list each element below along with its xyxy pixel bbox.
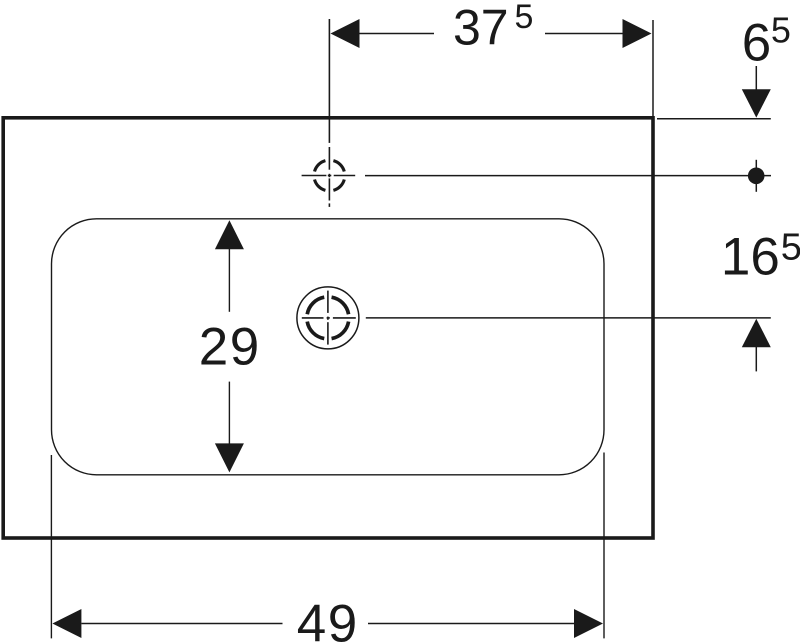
svg-text:5: 5 bbox=[781, 226, 800, 268]
faucet hole circle arcs bbox=[315, 161, 345, 191]
reference line from faucet hole to datum dot (y=175.5) bbox=[365, 175, 771, 177]
svg-text:37: 37 bbox=[453, 0, 509, 56]
dimension line 29 (x=229.4, vertical) bbox=[228, 249, 230, 312]
dimension line 49 (y=623.5) bbox=[82, 623, 283, 625]
arrow left of 49 dim bbox=[52, 609, 81, 638]
drain horizontal centerline bbox=[302, 317, 356, 319]
dimension line 37.5 (y=34) bbox=[360, 33, 435, 35]
top edge extension line (right of ceramic) bbox=[657, 118, 771, 120]
bowl outline (inner rounded rectangle) bbox=[52, 219, 605, 475]
drain inner circle arcs bbox=[307, 297, 348, 338]
drain vertical centerline bbox=[327, 291, 329, 345]
arrow up for 16.5 dim bbox=[742, 319, 771, 348]
svg-text:16: 16 bbox=[721, 228, 780, 287]
svg-text:6: 6 bbox=[742, 14, 771, 73]
svg-text:49: 49 bbox=[297, 595, 359, 644]
extension line left for 49 dim bbox=[50, 455, 52, 638]
extension line right for 37.5 dim (above ceramic right edge) bbox=[652, 20, 654, 116]
arrow right of 49 dim bbox=[574, 609, 603, 638]
faucet hole horizontal centerline bbox=[302, 175, 356, 177]
arrow right of 37.5 dim bbox=[623, 19, 652, 48]
extension line right for 49 dim bbox=[603, 453, 605, 639]
datum dot vertical tick bbox=[755, 160, 757, 192]
arrow down for 6.5 dim bbox=[742, 89, 771, 117]
ceramic outline (outer rectangle) bbox=[3, 118, 653, 538]
arrow left of 37.5 dim bbox=[331, 19, 360, 48]
reference line from drain to right (y=317.9) bbox=[366, 317, 771, 319]
faucet hole vertical centerline / extension line for 37.5 dim bbox=[328, 19, 330, 207]
arrow down of 29 dim bbox=[215, 443, 244, 472]
16.5 dim arrow tail bbox=[755, 347, 757, 371]
6.5 dim arrow tail bbox=[755, 66, 757, 90]
arrow up of 29 dim bbox=[215, 220, 244, 249]
svg-text:5: 5 bbox=[771, 10, 791, 51]
svg-text:29: 29 bbox=[199, 318, 261, 377]
datum dot bbox=[748, 168, 765, 185]
svg-text:5: 5 bbox=[515, 0, 534, 36]
drain outer circle bbox=[297, 287, 359, 349]
